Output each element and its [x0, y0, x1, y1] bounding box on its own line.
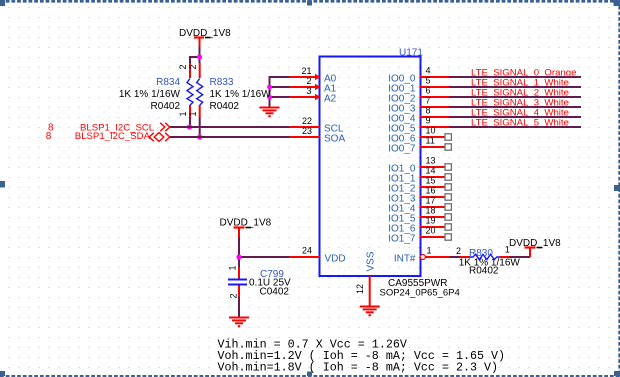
- svg-text:21: 21: [301, 66, 311, 76]
- svg-text:SOA: SOA: [324, 134, 345, 145]
- svg-text:DVDD_1V8: DVDD_1V8: [509, 238, 561, 249]
- svg-text:5: 5: [426, 76, 431, 86]
- selection handle top-middle: [307, 1, 312, 6]
- wire A1 net: [270, 86, 290, 88]
- selection border top: [0, 0, 620, 3]
- svg-text:R0402: R0402: [469, 266, 499, 277]
- pin 11 no-connect stub: [420, 136, 451, 151]
- svg-text:1K 1% 1/16W: 1K 1% 1/16W: [210, 89, 272, 100]
- note Vih/Voh text: [218, 338, 506, 375]
- svg-text:1K 1% 1/16W: 1K 1% 1/16W: [119, 89, 181, 100]
- pin 20 no-connect stub: [420, 226, 451, 241]
- pin 24 VDD stub: [290, 246, 346, 265]
- pin 12 VSS stub: [355, 251, 377, 305]
- pin 22 SCL stub: [290, 116, 344, 135]
- svg-text:VDD: VDD: [325, 254, 346, 265]
- ground GND below VSS: [360, 307, 380, 316]
- svg-text:R0402: R0402: [210, 101, 240, 112]
- svg-text:3: 3: [306, 86, 311, 96]
- resistor R834: [178, 63, 193, 117]
- wire A0 net vertical to ground: [270, 77, 290, 107]
- pin 10 no-connect stub: [420, 126, 451, 141]
- svg-text:8: 8: [426, 106, 431, 116]
- svg-text:2: 2: [456, 246, 461, 256]
- svg-text:7: 7: [426, 96, 431, 106]
- power DVDD_1V8 (R830): [509, 238, 561, 257]
- svg-text:20: 20: [426, 226, 436, 236]
- wire power2 down to junction: [238, 237, 240, 267]
- pin 6 IO0_2 stub: [420, 86, 449, 98]
- op IC U171 body: [320, 57, 421, 277]
- svg-text:11: 11: [426, 136, 435, 146]
- pin 17 no-connect stub: [420, 196, 451, 211]
- junction A2: [267, 95, 272, 100]
- svg-text:2: 2: [188, 65, 198, 70]
- svg-text:DVDD_1V8: DVDD_1V8: [220, 218, 272, 229]
- pin 16 no-connect stub: [420, 186, 451, 201]
- svg-text:1: 1: [427, 246, 432, 256]
- svg-text:1: 1: [228, 266, 238, 271]
- selection border right: [618, 0, 620, 377]
- wire power1 to resistors: [190, 47, 200, 64]
- wire C799 to ground: [238, 297, 240, 317]
- pin 15 no-connect stub: [420, 176, 451, 191]
- selection handle top-left: [0, 0, 5, 6]
- power DVDD_1V8 (C799): [220, 218, 272, 238]
- wire BLSP1_I2C_SCL: [170, 126, 290, 128]
- off-page connector BLSP1_I2C_SCL: [160, 123, 170, 131]
- pin 14 no-connect stub: [420, 166, 451, 181]
- svg-text:R0402: R0402: [151, 101, 181, 112]
- svg-text:BLSP1_I2C_SDA: BLSP1_I2C_SDA: [75, 131, 151, 142]
- svg-text:10: 10: [426, 126, 436, 136]
- pin 1 INT# stub with bubble: [394, 246, 450, 265]
- pin 23 SOA stub: [290, 126, 346, 145]
- wire INT# to R830: [450, 256, 461, 258]
- svg-text:24: 24: [302, 246, 312, 256]
- wire net LTE_SIGNAL_1_White: [449, 86, 581, 88]
- selection handle bottom-right: [614, 371, 620, 376]
- wire R830 to power3: [509, 256, 530, 258]
- wire net LTE_SIGNAL_0_Orange: [449, 76, 581, 78]
- svg-text:INT#: INT#: [394, 254, 416, 265]
- svg-text:16: 16: [426, 186, 436, 196]
- svg-text:DVDD_1V8: DVDD_1V8: [179, 28, 231, 39]
- selection handle bottom-left: [0, 371, 5, 376]
- pin 13 no-connect stub: [420, 156, 451, 171]
- selection handle mid-right: [614, 185, 620, 191]
- svg-text:LTE_SIGNAL_5_White: LTE_SIGNAL_5_White: [471, 118, 569, 129]
- capacitor C799: [228, 266, 248, 299]
- junction R834-SCL: [187, 124, 192, 129]
- pin 9 IO0_5 stub: [420, 116, 449, 128]
- wire power1 junction drop R833: [199, 57, 201, 63]
- wire net LTE_SIGNAL_5_White: [449, 126, 581, 128]
- junction VDD: [236, 254, 241, 259]
- pin 3 A2 stub with input arrow: [290, 86, 337, 105]
- svg-text:12: 12: [355, 284, 365, 294]
- svg-text:15: 15: [426, 176, 436, 186]
- svg-text:IO1_7: IO1_7: [388, 234, 416, 245]
- svg-text:17: 17: [426, 196, 436, 206]
- pin 5 IO0_1 stub: [420, 76, 449, 88]
- pin 8 IO0_4 stub: [420, 106, 449, 118]
- svg-text:19: 19: [426, 216, 436, 226]
- wire net LTE_SIGNAL_2_White: [449, 96, 581, 98]
- svg-text:1: 1: [178, 112, 188, 117]
- pin 2 A1 stub with input arrow: [290, 76, 337, 95]
- wire net LTE_SIGNAL_4_White: [449, 116, 581, 118]
- off-page connector BLSP1_I2C_SDA: [149, 133, 170, 142]
- junction power1: [197, 54, 202, 59]
- resistor R830: [456, 245, 510, 260]
- ground GND below A pins: [260, 108, 280, 117]
- power DVDD_1V8 (top): [179, 28, 231, 47]
- pin 7 IO0_3 stub: [420, 96, 449, 108]
- pin 18 no-connect stub: [420, 206, 451, 221]
- wire junction to VDD pin: [239, 256, 290, 258]
- svg-text:23: 23: [302, 126, 312, 136]
- pin 21 A0 stub with input arrow: [290, 66, 337, 85]
- svg-text:6: 6: [426, 86, 431, 96]
- svg-text:SOP24_0P65_6P4: SOP24_0P65_6P4: [380, 288, 460, 299]
- pin 19 no-connect stub: [420, 216, 451, 231]
- wire R834 to SCL: [189, 117, 191, 127]
- svg-text:VSS: VSS: [366, 251, 377, 271]
- svg-text:2: 2: [306, 76, 311, 86]
- svg-text:IO0_7: IO0_7: [388, 144, 416, 155]
- junction A1: [267, 85, 272, 90]
- junction R833-SDA: [197, 134, 202, 139]
- svg-text:13: 13: [426, 156, 436, 166]
- wire A2 net: [270, 96, 290, 98]
- selection handle top-right: [614, 0, 620, 6]
- svg-text:1: 1: [188, 112, 198, 117]
- svg-text:R834: R834: [156, 77, 180, 88]
- resistor R833: [188, 63, 203, 117]
- svg-text:8: 8: [46, 131, 52, 142]
- pin 4 IO0_0 stub: [420, 66, 449, 78]
- wire R833 to SDA: [199, 117, 201, 137]
- svg-text:C0402: C0402: [260, 287, 290, 298]
- wire BLSP1_I2C_SDA: [170, 136, 290, 138]
- ground GND below C799: [229, 318, 249, 327]
- svg-text:4: 4: [426, 66, 431, 76]
- selection handle mid-left: [0, 181, 5, 188]
- wire net LTE_SIGNAL_3_White: [449, 106, 581, 108]
- svg-text:14: 14: [426, 166, 436, 176]
- selection border bottom: [0, 375, 620, 377]
- svg-text:2: 2: [229, 294, 239, 299]
- svg-text:U171: U171: [399, 48, 423, 59]
- svg-text:9: 9: [426, 116, 431, 126]
- svg-text:R833: R833: [210, 77, 234, 88]
- svg-text:18: 18: [426, 206, 436, 216]
- svg-text:A2: A2: [324, 94, 337, 105]
- selection handle bottom-middle: [307, 372, 312, 377]
- svg-text:Voh.min=1.8V ( Ioh = -8 mA; Vc: Voh.min=1.8V ( Ioh = -8 mA; Vcc = 2.3 V): [218, 361, 499, 375]
- svg-text:2: 2: [178, 65, 188, 70]
- svg-text:22: 22: [302, 116, 312, 126]
